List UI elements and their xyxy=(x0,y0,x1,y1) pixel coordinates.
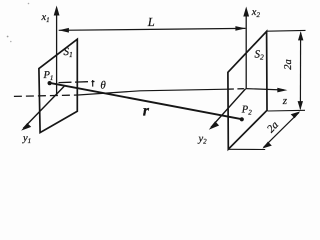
scan speck xyxy=(10,41,12,43)
axis z dashed segment in plate S2 xyxy=(227,88,246,91)
axis y1 arrowhead xyxy=(21,123,31,131)
svg-text:P1: P1 xyxy=(43,70,54,82)
scan speck xyxy=(7,36,9,38)
dimension L line xyxy=(59,28,246,30)
dimension L right arrowhead xyxy=(235,26,245,31)
svg-text:L: L xyxy=(147,15,155,29)
theta reference dashed line xyxy=(59,82,95,83)
point P2 xyxy=(240,117,244,121)
svg-text:S1: S1 xyxy=(64,46,73,59)
theta tick xyxy=(92,80,94,87)
svg-text:x1: x1 xyxy=(41,12,50,24)
extension line top right xyxy=(267,29,306,32)
axis x2 xyxy=(245,15,247,88)
axis x2 arrowhead xyxy=(243,7,249,17)
svg-text:S2: S2 xyxy=(255,49,265,62)
axis z solid middle segment xyxy=(78,89,227,95)
vector r line xyxy=(50,83,242,119)
axis z arrowhead xyxy=(277,88,287,93)
plate S2 xyxy=(228,31,267,149)
point P1 xyxy=(48,81,52,85)
svg-text:x2: x2 xyxy=(251,7,261,19)
plate S1 xyxy=(39,39,77,132)
svg-text:θ: θ xyxy=(100,79,106,91)
dimension 2a vertical bottom arrowhead xyxy=(298,101,303,110)
dimension 2a diagonal lower arrowhead xyxy=(262,142,271,149)
axis x1 xyxy=(56,14,58,96)
svg-text:r: r xyxy=(143,103,150,120)
dimension 2a vertical line xyxy=(299,33,301,109)
axis y2 xyxy=(211,89,246,128)
dimension L left arrowhead xyxy=(59,28,69,33)
scan speck xyxy=(28,3,30,5)
axis y1 xyxy=(23,86,64,128)
dimension 2a diagonal upper arrowhead xyxy=(291,111,300,118)
svg-text:y1: y1 xyxy=(22,133,31,145)
axis z solid arrow segment xyxy=(246,89,284,90)
axis z dashed left segment xyxy=(14,95,78,96)
axis x1 arrowhead xyxy=(54,6,60,16)
dimension 2a diagonal line xyxy=(264,112,300,147)
svg-text:2a: 2a xyxy=(283,59,294,70)
extension line bottom from BL xyxy=(229,148,266,150)
svg-text:z: z xyxy=(282,95,288,107)
axis y2 arrowhead xyxy=(209,121,219,130)
svg-text:y2: y2 xyxy=(198,134,208,146)
extension line bottom right from BR xyxy=(268,109,306,112)
svg-text:P2: P2 xyxy=(241,105,252,117)
dimension 2a vertical top arrowhead xyxy=(298,31,303,40)
